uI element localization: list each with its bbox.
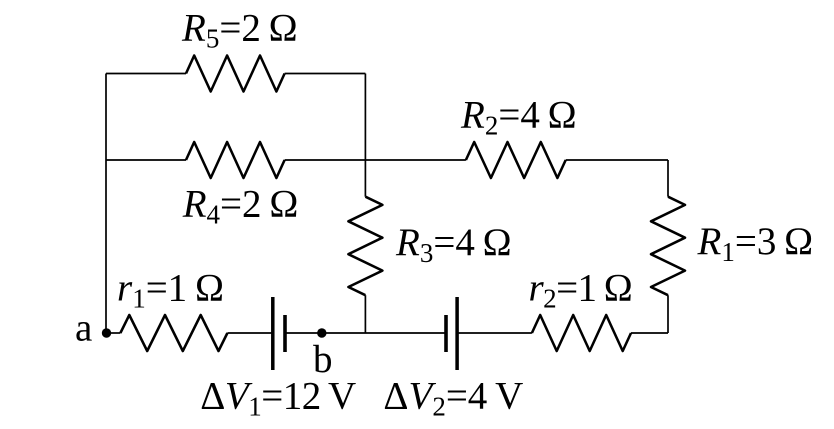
- svg-text:a: a: [75, 307, 92, 350]
- svg-text:R5=2 Ω: R5=2 Ω: [181, 7, 298, 54]
- svg-text:r2=1 Ω: r2=1 Ω: [529, 267, 633, 314]
- svg-text:R2=4 Ω: R2=4 Ω: [460, 94, 577, 141]
- svg-text:ΔV1=12 V: ΔV1=12 V: [200, 375, 356, 422]
- svg-text:r1=1 Ω: r1=1 Ω: [117, 267, 224, 314]
- svg-text:ΔV2=4 V: ΔV2=4 V: [383, 375, 523, 422]
- svg-text:R4=2 Ω: R4=2 Ω: [182, 183, 299, 230]
- svg-text:R3=4 Ω: R3=4 Ω: [395, 221, 512, 268]
- svg-text:R1=3 Ω: R1=3 Ω: [697, 220, 814, 267]
